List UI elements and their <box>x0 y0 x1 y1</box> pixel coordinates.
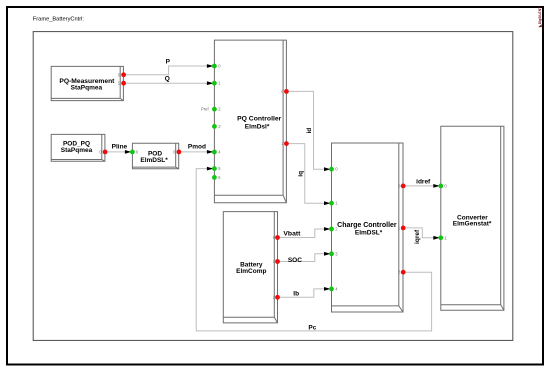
svg-text:id: id <box>306 128 313 134</box>
svg-text:Pmod: Pmod <box>188 143 206 150</box>
svg-text:PQ Controller: PQ Controller <box>237 116 282 123</box>
svg-text:Ib: Ib <box>293 291 299 298</box>
svg-text:iqref: iqref <box>414 229 421 244</box>
svg-text:SOC: SOC <box>288 257 302 264</box>
svg-text:Pref: Pref <box>201 107 209 112</box>
svg-text:ElmDSL*: ElmDSL* <box>355 229 383 236</box>
svg-text:StaPqmea: StaPqmea <box>71 84 103 91</box>
svg-text:P: P <box>166 58 171 65</box>
svg-text:idref: idref <box>416 179 431 186</box>
svg-text:Charge Controller: Charge Controller <box>337 222 397 229</box>
svg-text:Pline: Pline <box>112 143 128 150</box>
svg-text:Q: Q <box>165 75 170 82</box>
svg-text:Frame_BatteryCntrl:: Frame_BatteryCntrl: <box>33 17 85 23</box>
svg-text:Vbatt: Vbatt <box>283 231 301 238</box>
svg-text:Pc: Pc <box>308 325 316 332</box>
svg-text:StaPqmea: StaPqmea <box>61 147 93 154</box>
svg-text:DIgSILENT: DIgSILENT <box>538 6 542 24</box>
svg-text:ElmDsl*: ElmDsl* <box>245 123 270 130</box>
svg-text:iq: iq <box>298 171 305 177</box>
svg-text:ElmComp: ElmComp <box>236 268 266 275</box>
svg-text:ElmGenstat*: ElmGenstat* <box>453 220 492 227</box>
svg-text:ElmDSL*: ElmDSL* <box>140 157 168 164</box>
